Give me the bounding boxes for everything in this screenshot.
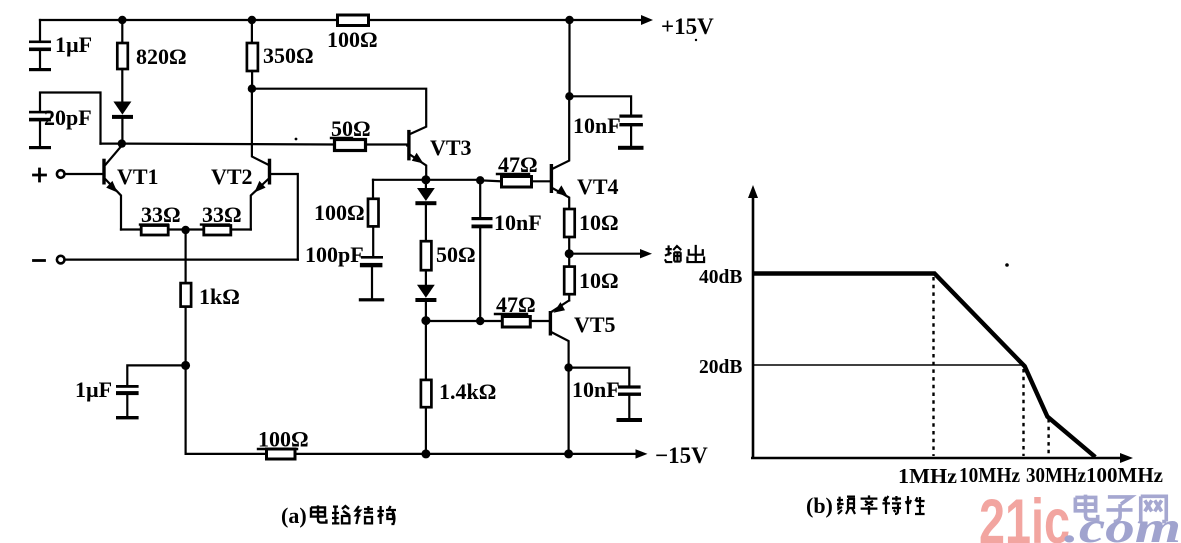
- capacitor 100pF: [359, 256, 384, 301]
- svg-text:100Ω: 100Ω: [258, 427, 309, 452]
- svg-text:21ic: 21ic: [979, 487, 1070, 543]
- terminal - input: [57, 256, 65, 264]
- svg-text:350Ω: 350Ω: [263, 43, 314, 68]
- svg-text:VT2: VT2: [211, 164, 253, 189]
- diode (bias lower): [415, 270, 436, 321]
- resistor 47Ω (VT4 base): [480, 177, 550, 188]
- caption (b)频率特性: [806, 493, 925, 518]
- diode (820Ω branch): [112, 102, 133, 144]
- node output junction: [565, 249, 574, 258]
- node emitter common junction: [181, 226, 189, 234]
- resistor 100Ω (top rail): [338, 15, 369, 26]
- node diode/VT1-collector/20pF junction: [118, 139, 126, 147]
- svg-text:1.4kΩ: 1.4kΩ: [439, 379, 496, 404]
- resistor 1kΩ: [181, 230, 192, 365]
- node VT4 collector junction: [565, 92, 573, 100]
- speck artifact in chart: [1005, 263, 1009, 267]
- node VT5 collector rail junction: [564, 449, 573, 458]
- resistor 820Ω: [117, 20, 128, 102]
- node VT3 emitter junction: [421, 175, 430, 184]
- resistor 33Ω (VT2 emitter): [186, 226, 251, 236]
- svg-text:1µF: 1µF: [55, 32, 92, 57]
- node 1µF junction: [181, 361, 190, 370]
- svg-text:.com: .com: [1064, 503, 1181, 543]
- resistor 350Ω: [247, 20, 258, 89]
- svg-text:VT1: VT1: [117, 164, 159, 189]
- svg-text:100Ω: 100Ω: [314, 200, 365, 225]
- wire VT1 collector node to VT3 base: [101, 144, 408, 146]
- svg-text:33Ω: 33Ω: [202, 202, 242, 227]
- svg-text:30MHz: 30MHz: [1026, 463, 1086, 487]
- svg-text:820Ω: 820Ω: [136, 44, 187, 69]
- svg-text:1µF: 1µF: [75, 377, 112, 402]
- capacitor 10nF (bottom right): [569, 368, 642, 422]
- resistor 1.4kΩ: [421, 321, 432, 454]
- svg-text:10Ω: 10Ω: [579, 268, 619, 293]
- svg-text:−15V: −15V: [655, 443, 708, 468]
- svg-text:+15V: +15V: [661, 14, 714, 39]
- resistor 33Ω (VT1 emitter): [121, 226, 186, 236]
- dashed 1MHz marker: [932, 277, 934, 456]
- svg-text:20dB: 20dB: [699, 357, 742, 378]
- node 10nF bottom junction: [476, 317, 484, 325]
- node 1.4kΩ bottom junction: [421, 449, 430, 458]
- svg-text:10nF: 10nF: [573, 113, 621, 138]
- wire diode node to VT5 base: [426, 320, 549, 322]
- svg-text:(b): (b): [806, 493, 833, 518]
- svg-text:VT5: VT5: [574, 312, 616, 337]
- resistor 50Ω (VT3 base): [335, 140, 366, 151]
- wire VT5 collector to -15V rail: [567, 368, 569, 454]
- svg-text:VT4: VT4: [577, 174, 619, 199]
- capacitor 10nF (middle): [472, 180, 493, 321]
- transistor VT2: [251, 89, 298, 260]
- curve 40dB flat and rolloff: [753, 274, 1095, 458]
- svg-text:1MHz: 1MHz: [898, 464, 957, 488]
- speck artifact near 50Ω wire: [295, 138, 298, 141]
- chart axis Y: [748, 185, 1133, 463]
- capacitor 1µF (top left): [29, 20, 51, 71]
- node 10nF top junction: [476, 176, 484, 184]
- svg-text:10nF: 10nF: [494, 210, 542, 235]
- svg-text:10Ω: 10Ω: [579, 210, 619, 235]
- resistor 100Ω (bottom rail): [267, 449, 296, 459]
- wire 350Ω node to VT3 collector: [252, 89, 426, 134]
- capacitor 20pF: [29, 93, 101, 150]
- resistor 47Ω (VT5 base): [502, 317, 530, 328]
- transistor VT3: [407, 130, 426, 179]
- resistor 10Ω (lower): [564, 254, 575, 301]
- svg-text:1kΩ: 1kΩ: [199, 284, 240, 309]
- node VT5 collector junction: [564, 363, 572, 371]
- label - input: [34, 259, 45, 262]
- wire +15V top rail: [40, 19, 646, 21]
- svg-text:100MHz: 100MHz: [1086, 463, 1163, 487]
- dashed 10MHz marker: [1022, 369, 1024, 456]
- svg-text:40dB: 40dB: [699, 267, 742, 288]
- node 350Ω bottom junction: [248, 85, 256, 93]
- line 20dB level: [753, 364, 1025, 366]
- capacitor 10nF (top right): [570, 96, 644, 150]
- wire - input to VT2 base: [65, 259, 298, 261]
- svg-text:20pF: 20pF: [44, 105, 92, 130]
- resistor 100Ω (middle): [368, 180, 379, 256]
- node 820Ω top junction: [641, 15, 653, 25]
- dashed 30MHz marker: [1047, 419, 1049, 456]
- resistor 10Ω (upper): [564, 209, 575, 254]
- wire VT3 emitter node row: [373, 179, 480, 181]
- label 输出: [665, 245, 704, 262]
- resistor 50Ω (bias chain): [421, 241, 432, 270]
- svg-text:100Ω: 100Ω: [327, 27, 378, 52]
- svg-text:100pF: 100pF: [305, 242, 364, 267]
- label + input: [34, 169, 46, 181]
- transistor VT4: [550, 96, 570, 209]
- node VT4 collector rail junction: [565, 16, 573, 24]
- diode (bias upper): [415, 180, 436, 241]
- chart axis X: [751, 457, 1125, 460]
- svg-text:50Ω: 50Ω: [436, 242, 476, 267]
- speck artifact under +15V: [695, 39, 697, 41]
- caption (a)电路结构: [281, 503, 396, 528]
- svg-text:10MHz: 10MHz: [959, 463, 1020, 487]
- svg-text:33Ω: 33Ω: [141, 202, 181, 227]
- node bias bottom junction: [421, 316, 430, 325]
- svg-text:10nF: 10nF: [572, 377, 620, 402]
- wire rail to VT4 collector: [568, 20, 570, 96]
- svg-text:(a): (a): [281, 503, 307, 528]
- transistor VT1: [57, 146, 122, 230]
- watermark 电子网: [1075, 495, 1166, 522]
- transistor VT5: [549, 301, 569, 368]
- wire -15V bottom rail: [186, 365, 640, 454]
- capacitor 1µF (bottom): [116, 365, 186, 419]
- node 350Ω top junction: [248, 16, 256, 24]
- svg-text:VT3: VT3: [430, 135, 472, 160]
- wire output arrow: [569, 253, 645, 255]
